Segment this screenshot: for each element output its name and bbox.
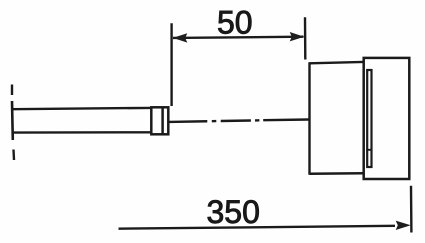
dim 50 right extension line <box>304 17 307 59</box>
probe tip centerline dash (bottom) <box>12 150 15 161</box>
housing rear box bottom edge <box>310 172 364 175</box>
dim 50 left extension line <box>170 23 172 106</box>
inner slot outline <box>367 70 371 167</box>
dim 350 right arrowhead <box>396 221 411 230</box>
inner slot divider <box>366 149 372 151</box>
svg-text:50: 50 <box>217 4 253 40</box>
cable line (solid + dash-dot shortened section) <box>169 120 308 122</box>
probe tip centerline dash (top) <box>11 85 13 96</box>
dim 350 dimension line <box>119 226 396 229</box>
probe sheath top line <box>12 108 150 109</box>
probe sheath bottom line <box>12 131 150 134</box>
dim 50 dimension line <box>173 37 304 38</box>
collar divider line <box>161 106 164 135</box>
collar sleeve outline <box>151 107 168 134</box>
dim 350 right extension line <box>410 186 413 233</box>
housing front box outline <box>364 58 410 179</box>
housing rear box left edge <box>308 62 310 175</box>
dim 50 left arrowhead <box>173 33 188 42</box>
svg-text:350: 350 <box>207 194 260 230</box>
probe tip left edge (solid) <box>11 101 14 140</box>
dim 50 right arrowhead <box>290 32 305 41</box>
housing rear box top edge <box>310 62 364 63</box>
